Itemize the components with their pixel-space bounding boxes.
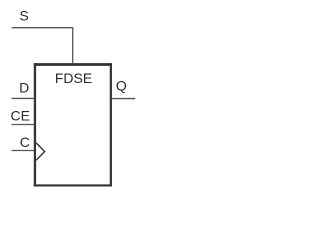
svg-text:Q: Q (116, 77, 127, 93)
svg-text:CE: CE (10, 108, 29, 124)
svg-text:D: D (19, 80, 29, 96)
svg-text:FDSE: FDSE (55, 70, 92, 86)
svg-text:C: C (20, 134, 30, 150)
svg-text:S: S (19, 8, 28, 24)
